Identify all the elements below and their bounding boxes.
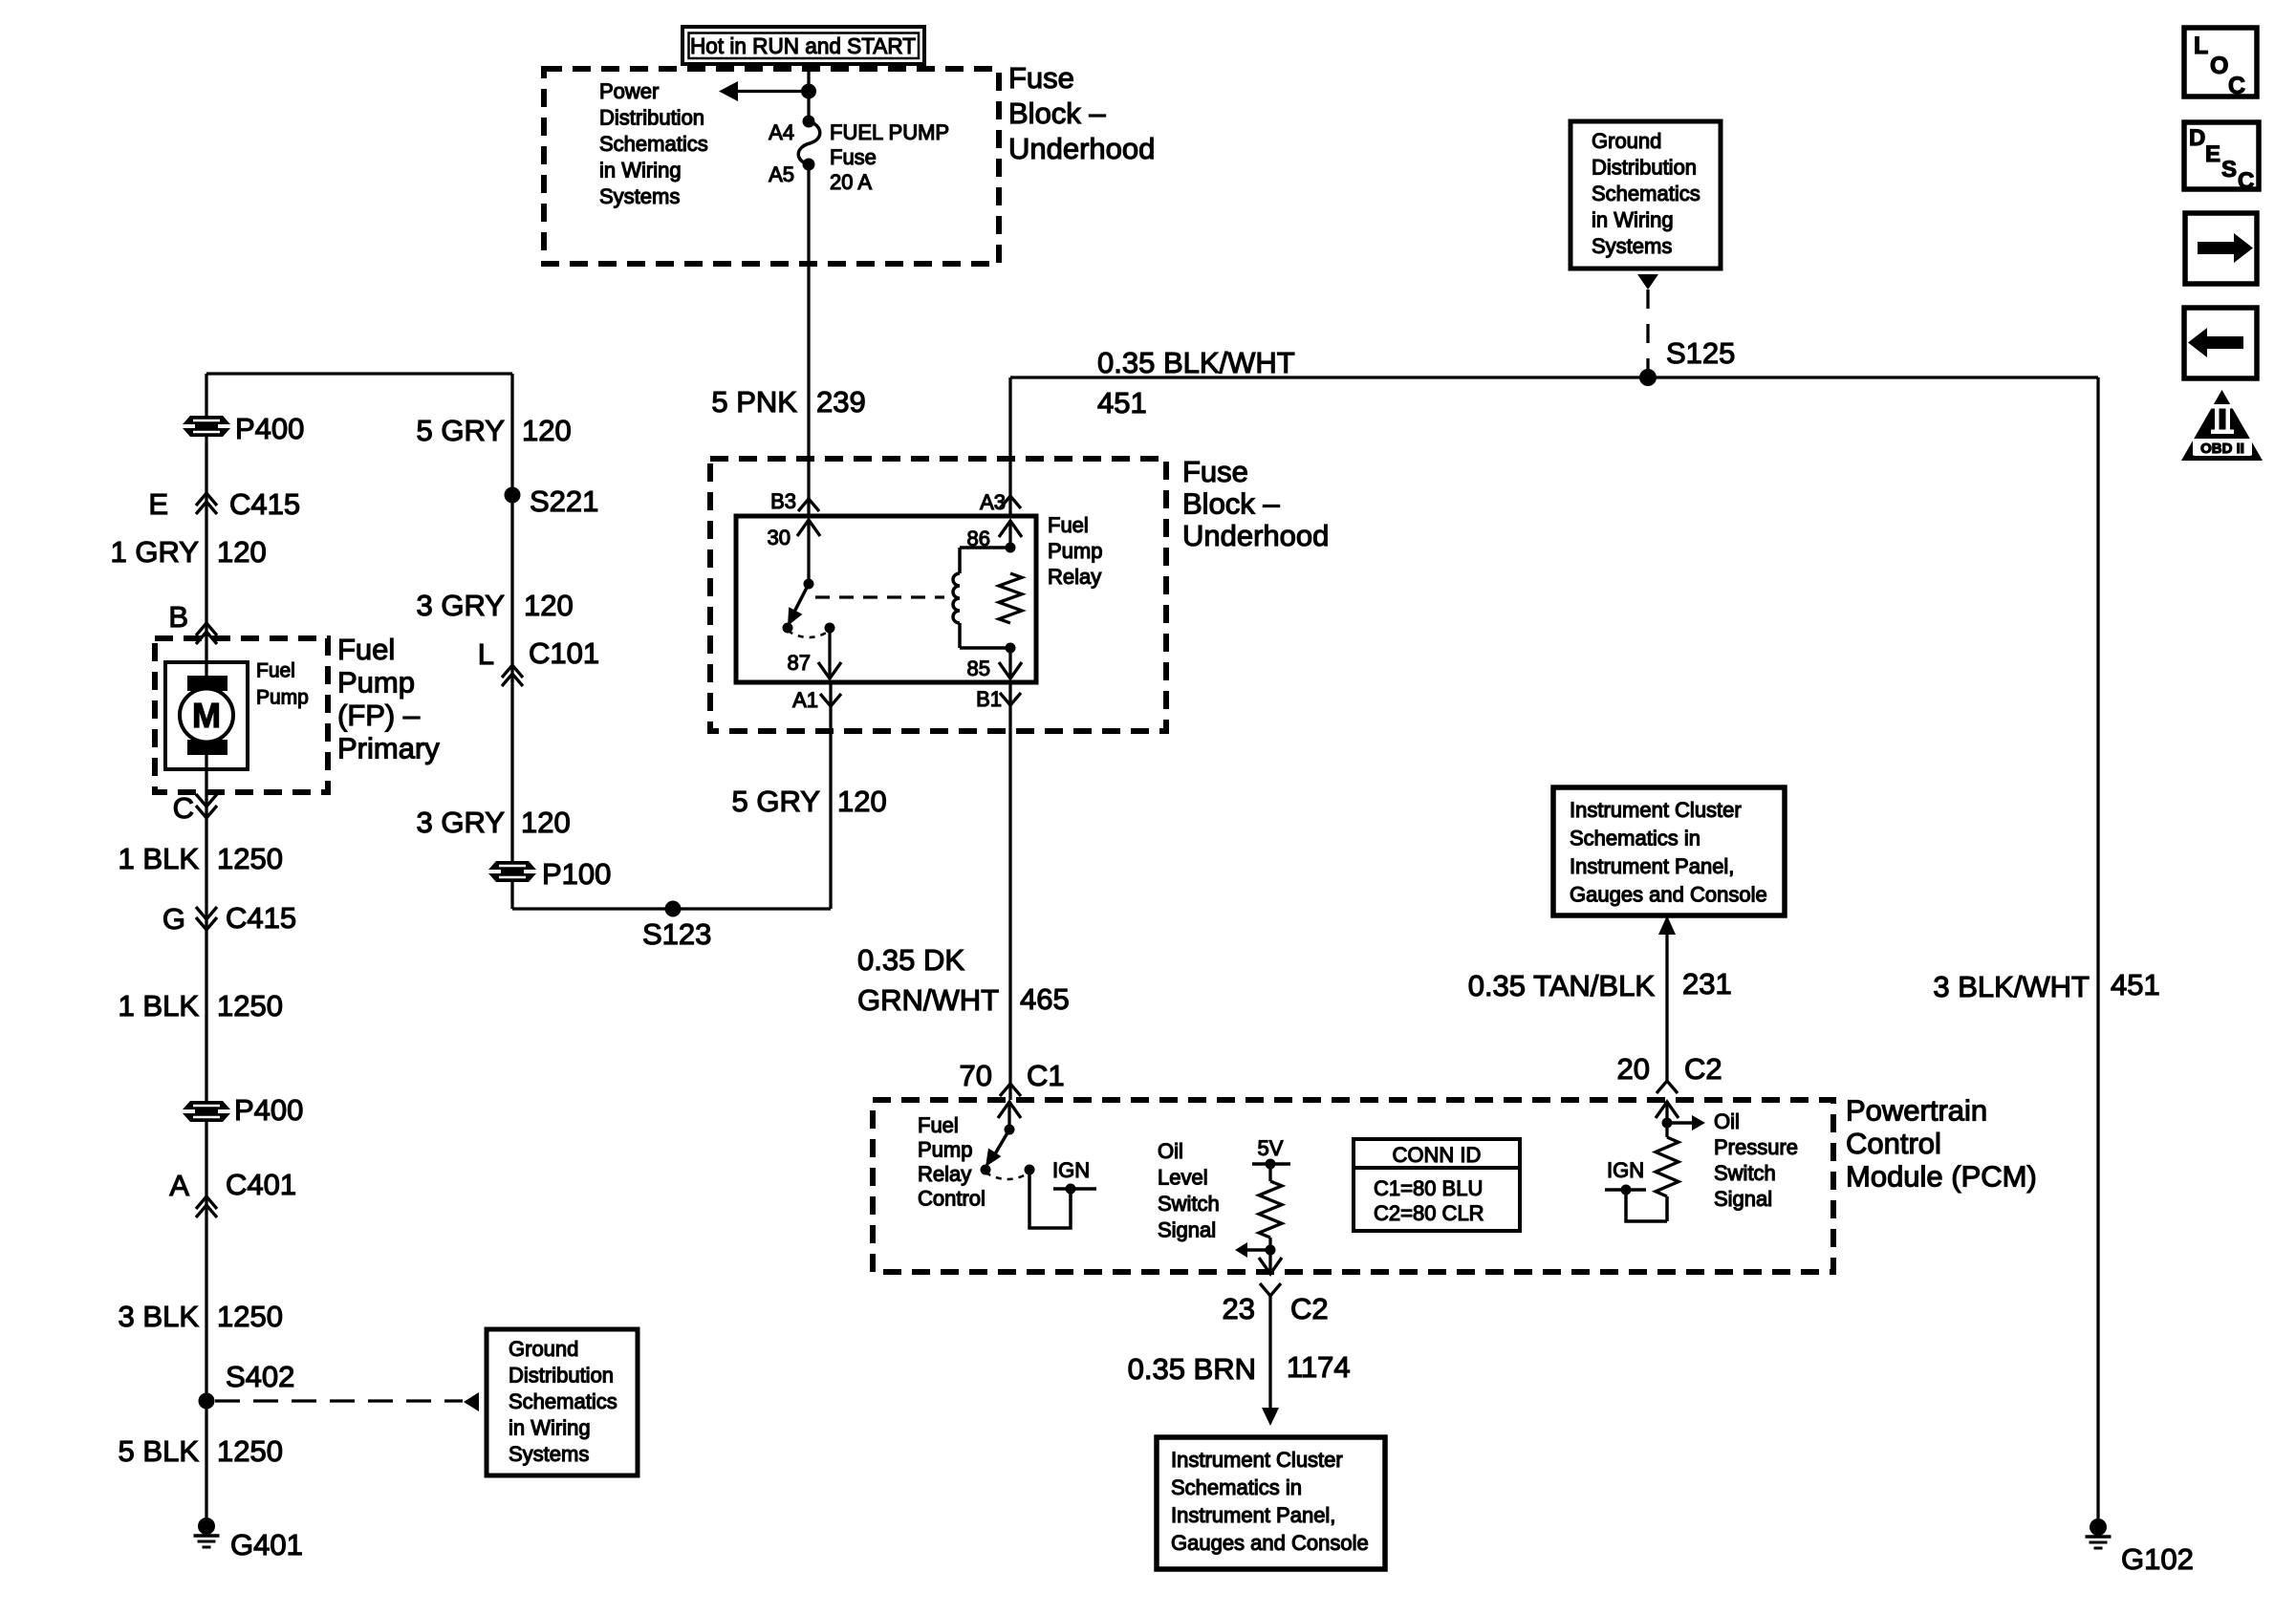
svg-text:Ground: Ground [509, 1337, 578, 1361]
svg-text:451: 451 [1097, 386, 1147, 420]
svg-text:Oil: Oil [1714, 1109, 1740, 1133]
svg-text:C401: C401 [226, 1168, 296, 1201]
svg-text:Switch: Switch [1714, 1161, 1776, 1185]
svg-text:Schematics: Schematics [599, 132, 708, 156]
svg-text:G: G [162, 902, 185, 936]
svg-text:C: C [2238, 168, 2254, 194]
svg-text:C2: C2 [1290, 1292, 1329, 1325]
svg-text:A: A [169, 1169, 189, 1202]
svg-text:231: 231 [1682, 967, 1732, 1001]
svg-text:1250: 1250 [217, 842, 283, 875]
svg-text:C2: C2 [1684, 1052, 1722, 1086]
svg-text:Signal: Signal [1714, 1187, 1772, 1211]
svg-text:1 GRY: 1 GRY [111, 535, 199, 569]
svg-text:Fuel: Fuel [918, 1113, 959, 1137]
svg-text:B1: B1 [976, 687, 1002, 711]
svg-text:120: 120 [522, 414, 572, 447]
svg-text:Powertrain: Powertrain [1846, 1094, 1987, 1128]
svg-text:5 PNK: 5 PNK [711, 385, 797, 419]
svg-text:Instrument Cluster: Instrument Cluster [1171, 1448, 1343, 1472]
svg-text:Distribution: Distribution [1592, 156, 1697, 180]
svg-text:Schematics in: Schematics in [1171, 1475, 1302, 1499]
svg-text:1 BLK: 1 BLK [119, 842, 200, 875]
svg-text:P400: P400 [235, 412, 304, 445]
svg-text:5 GRY: 5 GRY [417, 414, 505, 447]
svg-text:Relay: Relay [1048, 565, 1101, 589]
svg-text:GRN/WHT: GRN/WHT [857, 983, 999, 1017]
svg-text:Pump: Pump [1048, 539, 1102, 563]
svg-text:Oil: Oil [1158, 1139, 1183, 1163]
svg-text:Pump: Pump [918, 1138, 972, 1162]
svg-text:C2=80 CLR: C2=80 CLR [1374, 1201, 1484, 1225]
svg-text:Gauges and Console: Gauges and Console [1171, 1531, 1369, 1555]
svg-text:Fuel: Fuel [256, 660, 295, 682]
svg-text:A5: A5 [769, 162, 794, 186]
svg-text:OBD II: OBD II [2200, 441, 2244, 457]
svg-text:5V: 5V [1258, 1136, 1284, 1160]
svg-text:5 GRY: 5 GRY [732, 785, 820, 818]
svg-text:Distribution: Distribution [509, 1364, 614, 1388]
svg-text:87: 87 [788, 651, 811, 675]
svg-text:P100: P100 [542, 857, 611, 891]
svg-text:C415: C415 [229, 487, 300, 521]
svg-text:120: 120 [217, 535, 267, 569]
svg-text:Fuse: Fuse [1008, 61, 1074, 95]
svg-text:Fuse: Fuse [1182, 455, 1248, 488]
svg-text:Relay: Relay [918, 1162, 971, 1186]
svg-text:Fuse: Fuse [830, 145, 877, 169]
svg-text:Control: Control [1846, 1127, 1941, 1160]
svg-text:Systems: Systems [599, 184, 680, 208]
svg-text:20 A: 20 A [830, 170, 872, 194]
svg-text:120: 120 [521, 806, 571, 839]
svg-text:A3: A3 [980, 490, 1006, 514]
svg-text:0.35 DK: 0.35 DK [857, 943, 964, 977]
svg-text:A4: A4 [769, 120, 794, 144]
svg-text:E: E [2205, 141, 2220, 167]
svg-text:S: S [2221, 157, 2237, 183]
svg-text:1250: 1250 [217, 1300, 283, 1333]
svg-text:B: B [168, 600, 188, 634]
svg-text:Systems: Systems [509, 1442, 589, 1466]
svg-text:Primary: Primary [337, 732, 440, 765]
svg-text:Hot in RUN and START: Hot in RUN and START [690, 33, 916, 58]
svg-text:M: M [192, 696, 221, 735]
svg-text:S125: S125 [1666, 336, 1735, 370]
svg-text:C: C [2228, 73, 2245, 99]
svg-text:Pump: Pump [337, 666, 415, 700]
svg-text:Ground: Ground [1592, 129, 1661, 153]
svg-text:S221: S221 [530, 484, 598, 518]
svg-text:C1=80 BLU: C1=80 BLU [1374, 1176, 1483, 1200]
svg-text:S123: S123 [642, 917, 711, 951]
svg-text:3 GRY: 3 GRY [417, 589, 505, 622]
svg-text:in Wiring: in Wiring [1592, 208, 1674, 232]
svg-text:L: L [2194, 32, 2208, 59]
svg-text:Power: Power [599, 79, 659, 103]
svg-text:3 BLK/WHT: 3 BLK/WHT [1933, 970, 2090, 1003]
svg-text:85: 85 [967, 657, 990, 680]
svg-text:5 BLK: 5 BLK [119, 1434, 200, 1468]
svg-text:Gauges and Console: Gauges and Console [1570, 883, 1767, 907]
svg-text:IGN: IGN [1052, 1158, 1090, 1182]
svg-text:FUEL PUMP: FUEL PUMP [830, 120, 949, 144]
svg-text:Schematics in: Schematics in [1570, 827, 1700, 851]
svg-text:120: 120 [524, 589, 574, 622]
svg-text:0.35 BLK/WHT: 0.35 BLK/WHT [1097, 346, 1295, 379]
svg-text:Fuel: Fuel [337, 633, 395, 666]
svg-text:23: 23 [1223, 1292, 1255, 1325]
svg-text:70: 70 [960, 1059, 992, 1092]
svg-text:D: D [2189, 125, 2205, 151]
svg-text:3 BLK: 3 BLK [119, 1300, 200, 1333]
svg-text:86: 86 [967, 527, 990, 550]
svg-text:Instrument Panel,: Instrument Panel, [1171, 1503, 1335, 1527]
svg-text:G401: G401 [230, 1528, 303, 1561]
svg-text:Instrument Cluster: Instrument Cluster [1570, 798, 1742, 822]
svg-text:Block –: Block – [1008, 97, 1106, 130]
svg-text:Systems: Systems [1592, 234, 1672, 258]
svg-text:B3: B3 [770, 489, 796, 513]
svg-text:Schematics: Schematics [509, 1389, 617, 1413]
svg-text:(FP) –: (FP) – [337, 699, 421, 732]
svg-text:in Wiring: in Wiring [509, 1416, 591, 1440]
svg-text:Switch: Switch [1158, 1192, 1220, 1216]
svg-text:1 BLK: 1 BLK [119, 989, 200, 1023]
svg-text:Pump: Pump [256, 687, 309, 709]
svg-text:Schematics: Schematics [1592, 182, 1700, 205]
svg-text:3 GRY: 3 GRY [417, 806, 505, 839]
svg-text:S402: S402 [226, 1360, 294, 1393]
svg-text:IGN: IGN [1607, 1158, 1644, 1182]
svg-text:C: C [173, 791, 194, 825]
svg-text:30: 30 [768, 526, 791, 549]
svg-text:Block –: Block – [1182, 487, 1280, 521]
svg-text:Level: Level [1158, 1166, 1208, 1190]
svg-text:E: E [148, 487, 168, 521]
svg-text:C415: C415 [226, 901, 296, 935]
svg-text:C1: C1 [1027, 1059, 1065, 1092]
svg-text:Pressure: Pressure [1714, 1135, 1798, 1159]
svg-text:Control: Control [918, 1187, 986, 1211]
svg-text:O: O [2210, 53, 2228, 79]
svg-text:Underhood: Underhood [1008, 132, 1155, 165]
svg-text:451: 451 [2111, 968, 2160, 1001]
svg-text:G102: G102 [2121, 1542, 2194, 1576]
svg-text:0.35 TAN/BLK: 0.35 TAN/BLK [1468, 969, 1656, 1002]
svg-text:Module (PCM): Module (PCM) [1846, 1160, 2037, 1194]
svg-text:C101: C101 [529, 636, 599, 670]
svg-text:1174: 1174 [1287, 1350, 1351, 1384]
svg-text:Underhood: Underhood [1182, 519, 1329, 552]
svg-text:in Wiring: in Wiring [599, 159, 682, 183]
svg-text:1250: 1250 [217, 989, 283, 1023]
svg-text:A1: A1 [792, 688, 818, 712]
svg-text:465: 465 [1020, 982, 1070, 1016]
svg-text:239: 239 [816, 385, 866, 419]
svg-text:1250: 1250 [217, 1434, 283, 1468]
svg-text:120: 120 [837, 785, 887, 818]
svg-text:Instrument Panel,: Instrument Panel, [1570, 854, 1734, 878]
svg-text:Fuel: Fuel [1048, 513, 1089, 537]
svg-text:20: 20 [1617, 1052, 1650, 1086]
svg-text:Signal: Signal [1158, 1218, 1216, 1242]
svg-text:P400: P400 [234, 1093, 303, 1127]
svg-text:CONN ID: CONN ID [1393, 1143, 1482, 1167]
svg-text:0.35 BRN: 0.35 BRN [1128, 1352, 1256, 1386]
svg-text:L: L [478, 637, 494, 671]
svg-text:Distribution: Distribution [599, 106, 704, 130]
